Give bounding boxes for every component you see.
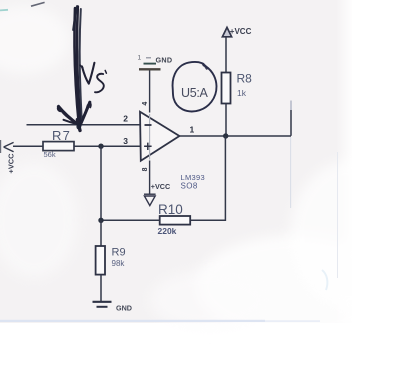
wire + input down xyxy=(100,146,102,220)
svg-text:R7: R7 xyxy=(52,128,71,143)
wire node to R9 xyxy=(100,220,102,246)
junction node at + input xyxy=(98,144,103,149)
svg-text:98k: 98k xyxy=(112,259,126,268)
svg-text:1k: 1k xyxy=(237,88,247,98)
wire output node down to R10 xyxy=(190,136,225,220)
wire pin 3 (non-inverting input) xyxy=(13,145,141,147)
resistor R10 xyxy=(160,216,191,225)
resistor R9 xyxy=(96,246,105,275)
scan artifact left edge tick xyxy=(0,140,1,153)
resistor R8 xyxy=(222,73,231,104)
wire op-amp output xyxy=(179,135,291,137)
annotation pen circle around U5:A xyxy=(173,62,217,111)
svg-text:1: 1 xyxy=(138,55,142,62)
svg-text:+VCC: +VCC xyxy=(230,27,252,36)
svg-text:SO8: SO8 xyxy=(181,181,198,190)
wire R9 to ground xyxy=(100,275,102,302)
svg-text:+VCC: +VCC xyxy=(7,153,16,174)
power flag +VCC bottom xyxy=(144,193,156,195)
power flag +VCC top xyxy=(222,27,231,36)
wire R8 to output node xyxy=(225,104,227,137)
wire +VCC to R8 xyxy=(225,37,227,73)
junction output node xyxy=(223,133,228,138)
scan artifact blue arc xyxy=(322,270,327,290)
svg-text:R9: R9 xyxy=(112,247,126,259)
annotation arrow head xyxy=(59,107,79,126)
svg-text:8: 8 xyxy=(142,167,149,171)
wire right vertical xyxy=(290,110,292,136)
svg-text:4: 4 xyxy=(142,102,149,106)
annotation arrow Vs shaft xyxy=(75,8,79,124)
svg-text:GND: GND xyxy=(156,56,173,65)
scan right edge xyxy=(337,152,338,278)
svg-text:1: 1 xyxy=(190,125,195,135)
wire R10 left to feedback node xyxy=(101,219,160,221)
svg-text:GND: GND xyxy=(116,304,132,313)
svg-text:R10: R10 xyxy=(158,202,183,217)
svg-text:3: 3 xyxy=(123,136,128,146)
annotation handwritten Vs xyxy=(80,65,83,68)
resistor R7 xyxy=(43,142,74,151)
svg-text:220k: 220k xyxy=(158,226,177,236)
power rail vertical through op-amp xyxy=(149,69,151,112)
svg-text:U5:A: U5:A xyxy=(181,86,209,100)
scan artifact top dash xyxy=(31,2,45,6)
op-amp U5:A triangle xyxy=(140,112,179,161)
scan bottom edge xyxy=(0,320,265,322)
ground bottom xyxy=(93,301,112,303)
scan artifact teal dash xyxy=(0,9,8,12)
ground top xyxy=(139,68,161,70)
svg-text:+VCC: +VCC xyxy=(151,182,170,191)
svg-text:R8: R8 xyxy=(237,72,253,86)
svg-text:2: 2 xyxy=(123,113,128,123)
wire pin 2 (inverting input) xyxy=(27,124,141,126)
junction feedback node xyxy=(98,218,103,223)
power flag +VCC left xyxy=(4,142,14,151)
svg-text:56k: 56k xyxy=(44,150,56,159)
